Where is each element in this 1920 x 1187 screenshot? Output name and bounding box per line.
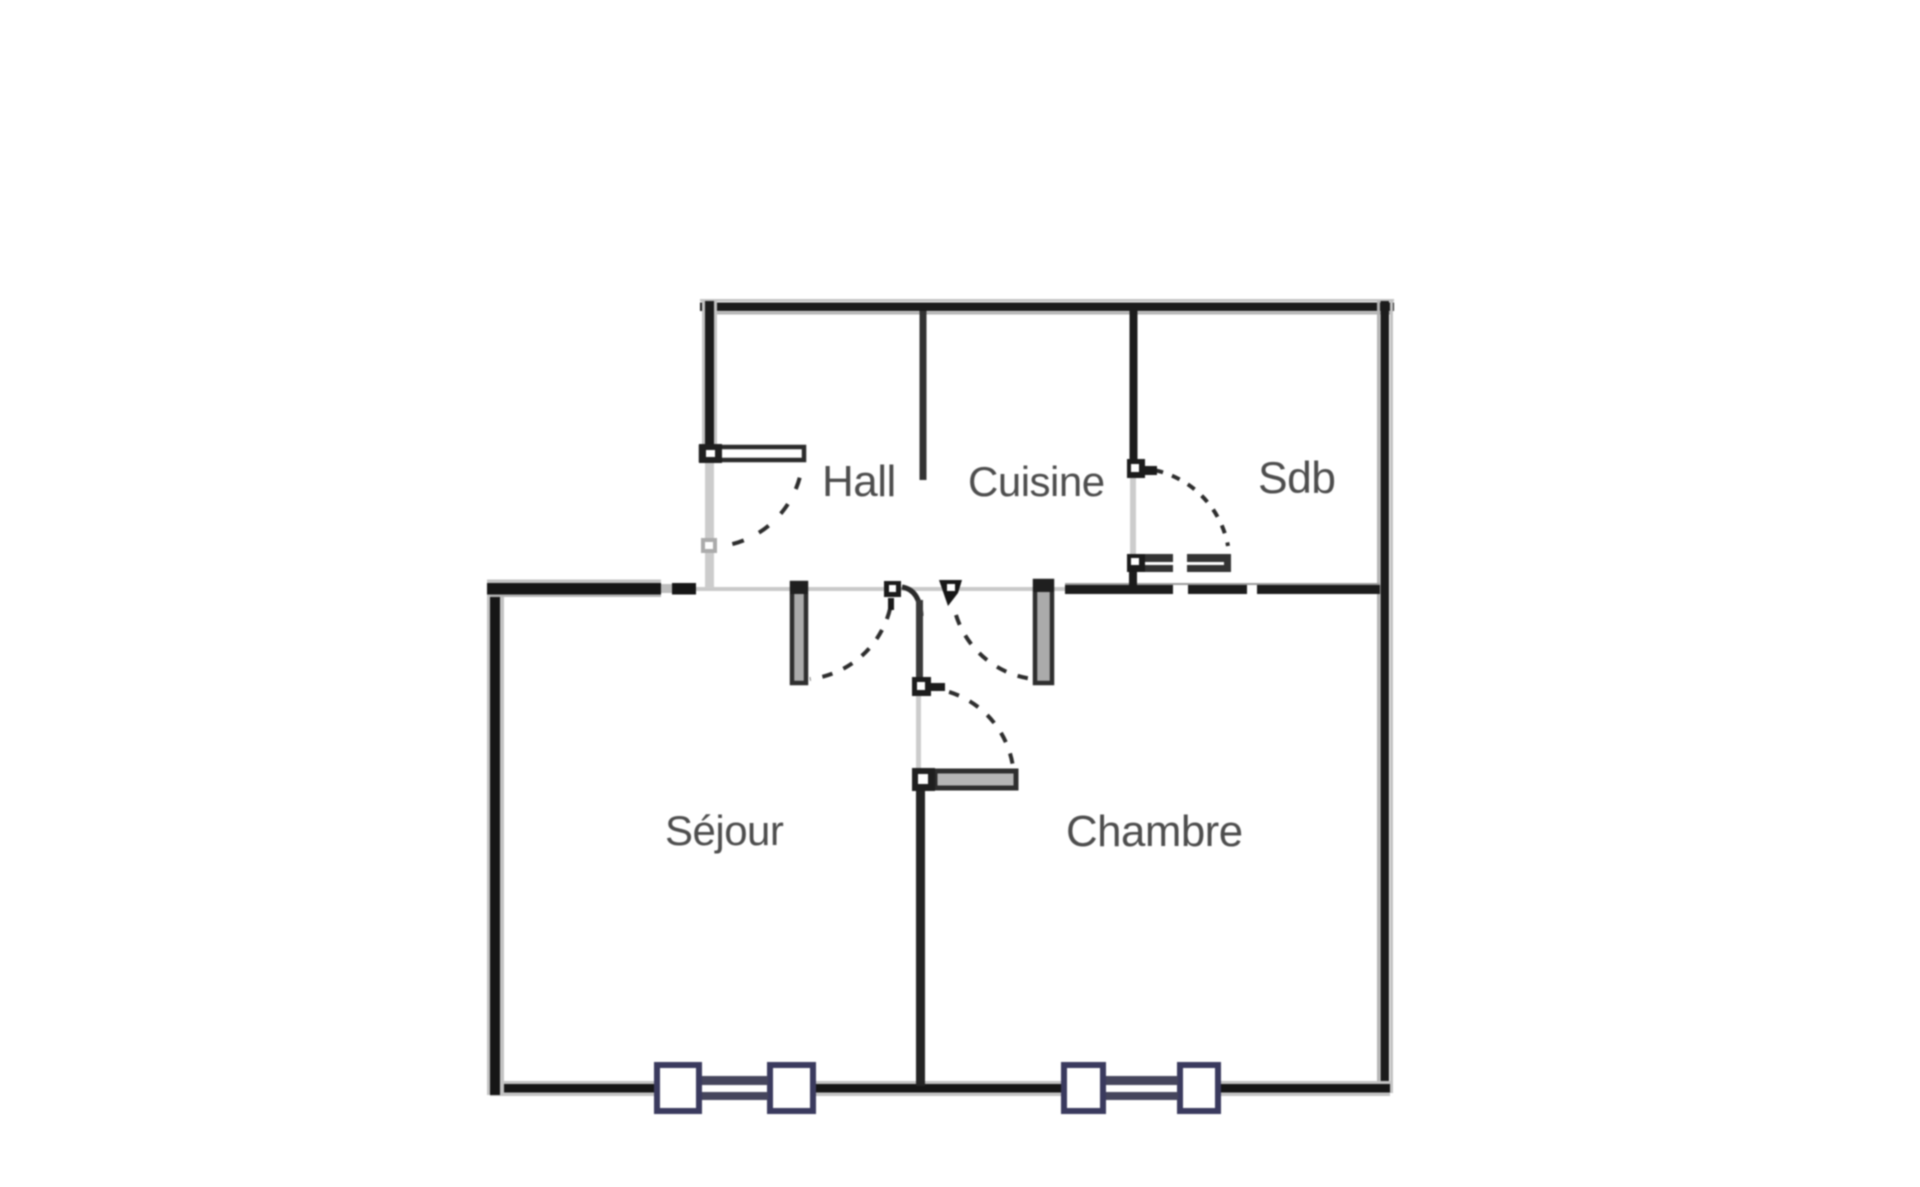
wall right exterior	[1377, 299, 1393, 1093]
node sdb wall end	[1127, 459, 1157, 478]
door arc sdb (dashed)	[1137, 468, 1228, 546]
door arc chambre (dashed)	[927, 688, 1013, 767]
wall bottom exterior segment C	[1218, 1081, 1390, 1096]
wire: gray mid hall line	[696, 587, 1066, 591]
door leaf entry (top-left)	[699, 444, 804, 463]
door leaf chambre (horizontal) with hinge node	[912, 768, 1016, 791]
wall bottom exterior segment B	[813, 1081, 1064, 1096]
wall mid right segment A	[1065, 585, 1173, 594]
node gray entry arc end	[701, 538, 717, 553]
svg-text:Sdb: Sdb	[1258, 454, 1335, 503]
wall top exterior	[700, 299, 1394, 315]
door arc sejour (dashed)	[810, 609, 890, 679]
svg-text:Cuisine: Cuisine	[968, 458, 1105, 505]
wall sdb stub below door node	[1129, 570, 1137, 594]
door arc entry (dashed)	[709, 453, 803, 547]
arrow marker sejour arc end	[884, 581, 901, 610]
wall sejour north segment B	[661, 584, 672, 593]
node center stub bottom	[912, 677, 945, 696]
wall sejour north segment A	[487, 580, 661, 598]
svg-text:Chambre: Chambre	[1066, 807, 1243, 856]
wire: gray hall west opening	[705, 461, 714, 588]
wall left exterior (sejour west)	[487, 582, 504, 1095]
wall divider hall/cuisine	[920, 311, 927, 480]
window chambre	[1064, 1065, 1218, 1111]
wall center stub	[902, 587, 923, 682]
door arc right corridor (dashed)	[956, 615, 1033, 679]
wall bottom exterior segment A	[490, 1081, 658, 1096]
wall mid right segment C	[1257, 585, 1380, 594]
door leaf sejour (vertical)	[790, 581, 808, 683]
wall divider cuisine/sdb	[1130, 311, 1138, 478]
svg-text:Hall: Hall	[822, 457, 896, 506]
wall hall west	[702, 301, 717, 461]
wire: gray sdb opening	[1130, 478, 1136, 556]
wall mid right gray topline	[1065, 583, 1380, 585]
wall mid right segment B	[1188, 585, 1247, 594]
window sejour	[657, 1065, 813, 1111]
door leaf right corridor (vertical)	[1033, 579, 1054, 683]
wall divider sejour/chambre	[916, 791, 925, 1086]
door leaf sdb (double bar)	[1127, 554, 1231, 572]
wire: gray stub lower	[916, 682, 921, 770]
svg-text:Séjour: Séjour	[665, 807, 784, 854]
arrow marker right corridor arc end (wedge)	[939, 580, 962, 606]
